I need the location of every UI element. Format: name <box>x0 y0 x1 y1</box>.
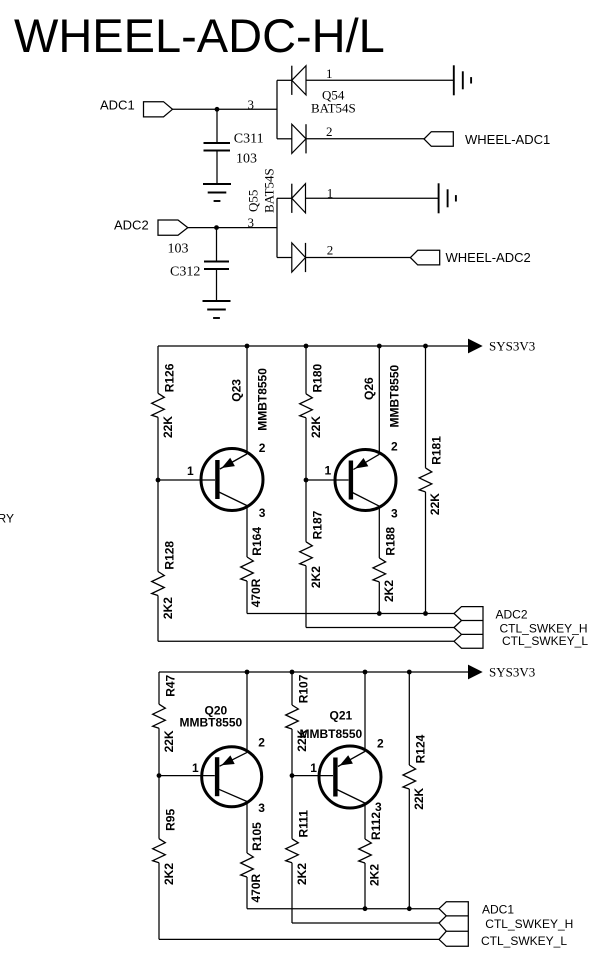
wire net ADC2 <box>247 613 454 615</box>
junction rail <box>363 670 368 675</box>
wire Q20 base <box>159 775 215 777</box>
junction Q21 base node <box>290 773 295 778</box>
wire R180 to R187 / Q26 base node <box>305 418 307 542</box>
capacitor C311 <box>204 143 231 151</box>
svg-text:22K: 22K <box>309 416 323 438</box>
svg-text:1: 1 <box>325 463 332 477</box>
svg-text:1: 1 <box>327 185 334 200</box>
svg-text:2: 2 <box>258 736 265 750</box>
svg-text:1: 1 <box>310 761 317 775</box>
svg-text:22K: 22K <box>161 416 175 438</box>
capacitor C312 <box>204 262 229 270</box>
wire D1 anode to ground <box>306 79 454 81</box>
svg-text:2K2: 2K2 <box>161 597 175 619</box>
transistor Q26 <box>335 450 396 511</box>
svg-text:BAT54S: BAT54S <box>261 168 276 213</box>
wire SYS3V3 rail (bottom) <box>159 671 468 673</box>
svg-text:2: 2 <box>326 124 333 139</box>
resistor R164 <box>241 557 254 581</box>
svg-text:CTL_SWKEY_L: CTL_SWKEY_L <box>481 934 567 948</box>
svg-text:3: 3 <box>248 97 255 112</box>
diode Q55-B (BAT54S) <box>292 243 306 272</box>
wire rail to Q21 emitter <box>364 672 366 751</box>
wire net CTL_SWKEY_L (bottom) <box>159 938 439 940</box>
resistor R126 <box>152 393 165 417</box>
svg-text:2K2: 2K2 <box>309 566 323 588</box>
transistor Q23 <box>201 449 263 511</box>
diode Q54-A (BAT54S) <box>292 66 306 95</box>
wire D2 to WHEEL-ADC1 <box>306 138 424 140</box>
svg-text:R164: R164 <box>250 527 264 556</box>
resistor R187 <box>300 542 313 566</box>
svg-text:MMBT8550: MMBT8550 <box>180 716 243 730</box>
svg-text:3: 3 <box>259 506 266 520</box>
svg-text:ADC1: ADC1 <box>482 903 514 917</box>
wire SYS3V3 rail (middle) <box>158 345 468 347</box>
wire D4 to WHEEL-ADC2 <box>306 257 411 259</box>
wire rail to Q26 emitter <box>378 346 380 454</box>
svg-text:R47: R47 <box>163 674 177 696</box>
svg-text:R126: R126 <box>162 363 176 392</box>
svg-text:WHEEL-ADC-H/L: WHEEL-ADC-H/L <box>14 9 385 62</box>
resistor R105 <box>241 853 254 877</box>
diode Q54-B (BAT54S) <box>292 124 306 153</box>
svg-text:WHEEL-ADC1: WHEEL-ADC1 <box>465 132 550 147</box>
svg-text:R124: R124 <box>414 734 428 763</box>
svg-text:103: 103 <box>168 242 189 257</box>
wire branch to D2 anode <box>277 138 292 140</box>
wire Q21 collector to R112 <box>364 803 366 839</box>
junction rail <box>407 670 412 675</box>
svg-text:CTL_SWKEY_L: CTL_SWKEY_L <box>502 634 588 648</box>
svg-text:1: 1 <box>187 464 194 478</box>
svg-text:Q23: Q23 <box>230 379 244 402</box>
svg-text:R128: R128 <box>162 541 176 570</box>
wire R95 to CTL_SWKEY_L <box>158 863 160 940</box>
wire net CTL_SWKEY_H (bottom) <box>292 922 439 924</box>
junction rail <box>245 670 250 675</box>
junction node 3 (ADC1) <box>215 107 220 112</box>
wire Q54 common branch <box>276 80 278 139</box>
resistor R112 <box>359 839 372 863</box>
power SYS3V3 (middle) <box>468 339 483 354</box>
resistor R107 <box>286 705 299 729</box>
svg-text:MMBT8550: MMBT8550 <box>255 368 269 431</box>
wire R124 to ADC1 line <box>408 789 410 909</box>
diode Q55-A (BAT54S) <box>292 184 306 213</box>
svg-text:3: 3 <box>258 801 265 815</box>
wire rail to R47 <box>158 672 160 704</box>
svg-text:3: 3 <box>375 800 382 814</box>
wire R47 to R95 / Q20 base node <box>158 728 160 839</box>
svg-text:1: 1 <box>326 66 333 81</box>
ground (Q54 pin 1) <box>454 65 471 95</box>
resistor R180 <box>300 394 313 418</box>
svg-text:103: 103 <box>236 152 257 167</box>
svg-text:3: 3 <box>248 215 255 230</box>
svg-text:2K2: 2K2 <box>382 580 396 602</box>
svg-text:2K2: 2K2 <box>295 863 309 885</box>
wire to C311 <box>216 109 218 143</box>
wire R112 to ADC1 line <box>364 863 366 909</box>
wire ADC2 to Q55 node <box>188 227 277 229</box>
wire C311 to ground <box>216 151 218 185</box>
ground (Q55 pin 1) <box>439 183 456 213</box>
wire R128 to CTL_SWKEY_L <box>157 596 159 642</box>
svg-text:C311: C311 <box>234 132 264 147</box>
svg-text:C312: C312 <box>170 265 200 280</box>
wire Q23 base <box>158 479 215 481</box>
wire rail to Q23 emitter <box>246 346 248 453</box>
svg-text:2K2: 2K2 <box>162 863 176 885</box>
junction rail <box>245 344 250 349</box>
wire R105 to ADC1 line <box>246 877 248 909</box>
svg-text:22K: 22K <box>412 787 426 809</box>
wire R126 to R128 / Q23 base node <box>157 417 159 571</box>
svg-text:CTL_SWKEY_H: CTL_SWKEY_H <box>485 917 573 931</box>
svg-text:MMBT8550: MMBT8550 <box>300 727 363 741</box>
power SYS3V3 (bottom) <box>468 665 483 680</box>
wire branch to D4 anode <box>277 257 292 259</box>
svg-text:R111: R111 <box>296 810 310 838</box>
svg-text:470R: 470R <box>249 873 263 902</box>
svg-text:R180: R180 <box>310 363 324 392</box>
connector stack ADC2/CTL_SWKEY_H/CTL_SWKEY_L <box>454 607 483 649</box>
wire C312 to ground <box>216 269 218 301</box>
svg-text:MMBT8550: MMBT8550 <box>387 364 401 427</box>
junction R124/ADC1 <box>407 906 412 911</box>
svg-text:22K: 22K <box>162 730 176 752</box>
junction rail <box>304 344 309 349</box>
wire Q55 common branch <box>276 198 278 257</box>
svg-text:R188: R188 <box>384 527 398 556</box>
svg-text:R181: R181 <box>429 436 443 465</box>
resistor R111 <box>286 839 299 863</box>
junction rail <box>423 344 428 349</box>
junction Q23 base node <box>156 478 161 483</box>
svg-text:Q26: Q26 <box>362 377 376 400</box>
wire Q26 collector to R188 <box>378 506 380 558</box>
svg-text:1: 1 <box>192 761 199 775</box>
junction R181/ADC2 <box>423 611 428 616</box>
wire net CTL_SWKEY_L (middle) <box>158 640 454 642</box>
wire Q23 collector to R164 <box>246 506 248 557</box>
transistor Q21 <box>319 746 381 808</box>
connector stack ADC1/CTL_SWKEY_H/CTL_SWKEY_L <box>439 902 468 947</box>
svg-text:RY: RY <box>0 512 14 526</box>
wire rail to Q20 emitter <box>246 672 248 752</box>
junction rail <box>290 670 295 675</box>
wire net CTL_SWKEY_H (middle) <box>306 627 454 629</box>
svg-text:R105: R105 <box>250 822 264 851</box>
wire R187 to CTL_SWKEY_H <box>305 566 307 628</box>
svg-text:3: 3 <box>391 506 398 520</box>
svg-text:2K2: 2K2 <box>367 864 381 886</box>
transistor Q20 <box>202 747 262 807</box>
ground (C312) <box>203 301 231 318</box>
svg-text:WHEEL-ADC2: WHEEL-ADC2 <box>446 250 531 265</box>
junction R188/ADC2 <box>377 611 382 616</box>
wire rail to R107 <box>291 672 293 705</box>
resistor R188 <box>373 558 386 582</box>
svg-text:SYS3V3: SYS3V3 <box>489 665 535 680</box>
junction Q26 base node <box>304 478 309 483</box>
resistor R47 <box>153 704 166 728</box>
junction Q20 base node <box>157 773 162 778</box>
svg-text:Q21: Q21 <box>330 709 353 723</box>
svg-text:ADC1: ADC1 <box>100 98 135 113</box>
wire Q26 base <box>306 479 349 481</box>
svg-text:ADC2: ADC2 <box>114 218 149 233</box>
svg-text:R112: R112 <box>369 812 383 840</box>
resistor R124 <box>403 765 416 789</box>
wire D3 anode to ground <box>306 197 439 199</box>
svg-text:BAT54S: BAT54S <box>311 101 356 116</box>
connector ADC2 (input port) <box>158 220 188 235</box>
ground (C311) <box>203 184 231 201</box>
wire Q21 base <box>292 775 333 777</box>
connector WHEEL-ADC1 (output port) <box>424 132 453 147</box>
wire R111 to CTL_SWKEY_H <box>291 863 293 923</box>
wire to D3 cathode <box>277 197 292 199</box>
svg-text:2: 2 <box>327 243 334 258</box>
svg-text:2: 2 <box>377 737 384 751</box>
junction node 3 (ADC2) <box>214 225 219 230</box>
junction R112/ADC1 <box>363 906 368 911</box>
svg-text:R187: R187 <box>310 510 324 539</box>
svg-text:2: 2 <box>391 440 398 454</box>
svg-text:R107: R107 <box>296 674 310 703</box>
resistor R95 <box>153 839 166 863</box>
svg-text:22K: 22K <box>428 493 442 515</box>
wire rail to R124 <box>408 672 410 765</box>
wire net ADC1 <box>247 908 439 910</box>
wire to C312 <box>216 228 218 262</box>
wire R107 to R111 / Q21 base node <box>291 729 293 839</box>
wire rail to R180 <box>305 346 307 394</box>
wire R164 to ADC2 line <box>246 581 248 614</box>
resistor R128 <box>152 572 165 596</box>
resistor R181 <box>419 468 432 492</box>
svg-text:ADC2: ADC2 <box>496 607 528 621</box>
wire to D1 cathode <box>277 79 292 81</box>
svg-text:2: 2 <box>259 441 266 455</box>
svg-text:470R: 470R <box>249 578 263 607</box>
connector WHEEL-ADC2 (output port) <box>410 250 439 265</box>
wire ADC1 to Q54 node <box>172 108 277 110</box>
wire R181 to ADC2 line <box>425 492 427 614</box>
wire R188 to ADC2 line <box>378 582 380 614</box>
connector ADC1 (input port) <box>144 102 173 117</box>
junction rail <box>377 344 382 349</box>
svg-text:R95: R95 <box>163 809 177 831</box>
wire rail to R126 <box>157 346 159 393</box>
svg-text:Q55: Q55 <box>245 190 260 212</box>
svg-text:SYS3V3: SYS3V3 <box>489 339 535 354</box>
wire rail to R181 <box>425 346 427 468</box>
wire Q20 collector to R105 <box>246 802 248 854</box>
